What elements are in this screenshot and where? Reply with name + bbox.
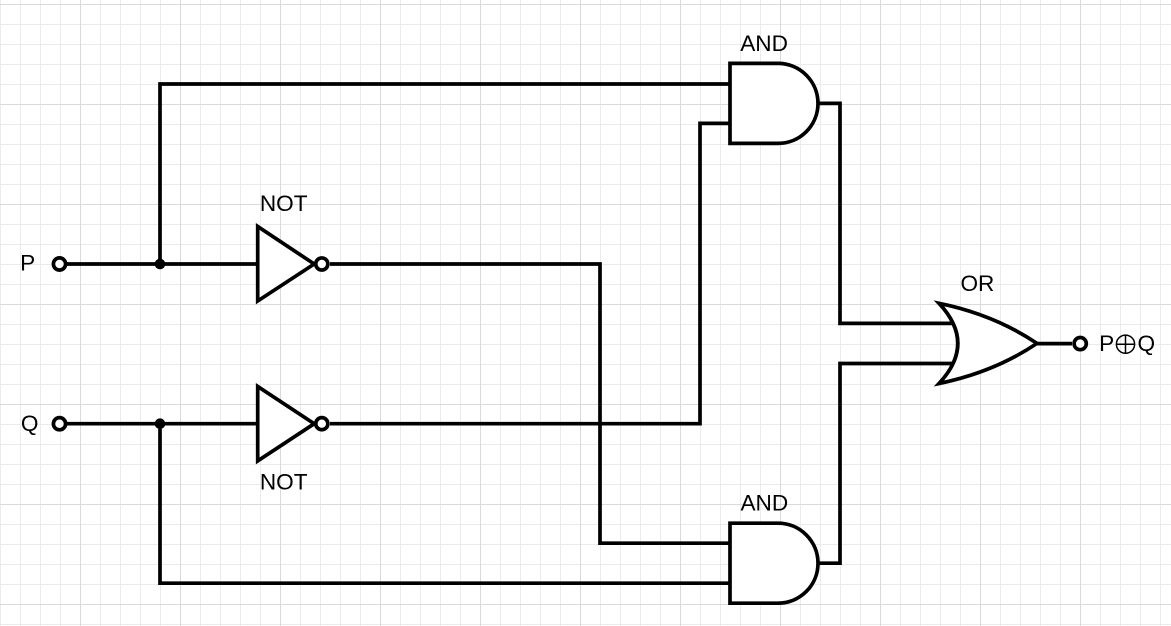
wire AND2 output to OR bottom input bbox=[816, 364, 958, 564]
wire P input bbox=[66, 262, 259, 266]
svg-text:OR: OR bbox=[960, 271, 994, 296]
AND gate U4 (bottom) bbox=[730, 523, 818, 603]
NOT gate U1 bubble bbox=[316, 258, 328, 270]
wire NOT2 output to AND1 bottom input bbox=[330, 123, 736, 423]
svg-text:P: P bbox=[20, 251, 35, 276]
AND gate U3 (top) bbox=[730, 63, 818, 143]
NOT gate U1 triangle bbox=[258, 227, 315, 302]
svg-text:NOT: NOT bbox=[260, 470, 308, 495]
OR gate U5 bbox=[939, 303, 1037, 383]
junction dot on P line bbox=[155, 259, 166, 270]
wire AND1 output to OR top input bbox=[816, 103, 958, 323]
wire OR output bbox=[1036, 342, 1072, 346]
wire Q input bbox=[66, 422, 259, 426]
input terminal Q bbox=[53, 418, 65, 430]
wire NOT1 output to AND2 top input bbox=[330, 264, 736, 543]
svg-text:AND: AND bbox=[740, 491, 788, 516]
wire P branch up to AND1 top input bbox=[160, 84, 736, 264]
svg-text:Q: Q bbox=[21, 411, 39, 436]
svg-text:NOT: NOT bbox=[260, 191, 308, 216]
output terminal bbox=[1074, 338, 1086, 350]
junction dot on Q line bbox=[155, 418, 166, 429]
NOT gate U2 bubble bbox=[316, 418, 328, 430]
NOT gate U2 triangle bbox=[258, 386, 315, 461]
svg-text:Q: Q bbox=[1138, 331, 1156, 356]
svg-text:P: P bbox=[1099, 331, 1114, 356]
wire Q branch down to AND2 bottom input bbox=[160, 424, 736, 584]
svg-text:AND: AND bbox=[740, 31, 788, 56]
input terminal P bbox=[53, 258, 65, 270]
xor symbol circle-plus bbox=[1116, 335, 1134, 353]
